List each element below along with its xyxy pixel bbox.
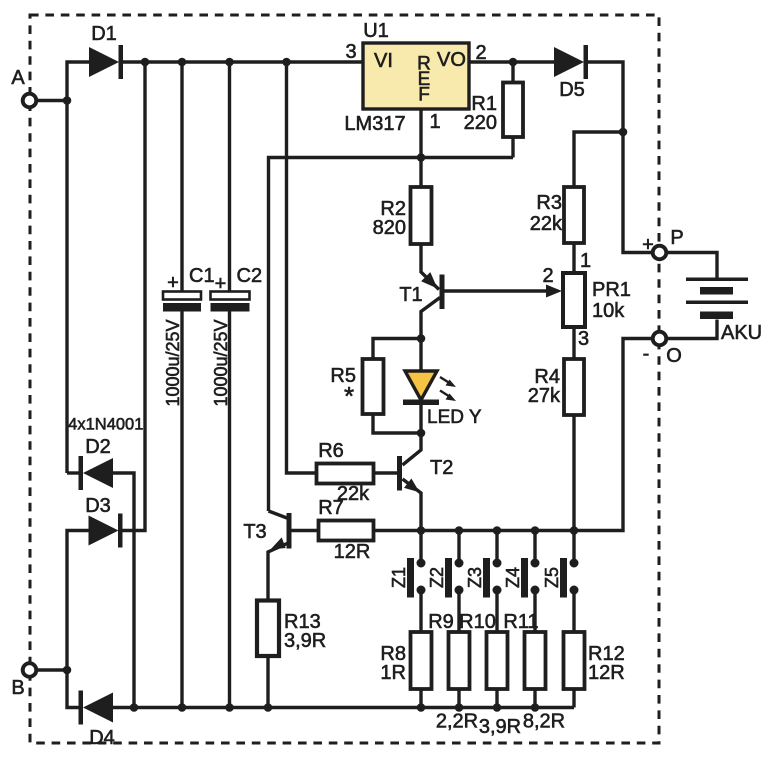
op-amp U1 LM317 regulator [344, 20, 486, 135]
svg-text:820: 820 [373, 217, 406, 239]
wire R4 to bus [572, 415, 575, 531]
terminal O [643, 332, 682, 367]
battery AKU [666, 253, 762, 345]
wire bottom bus [113, 706, 574, 709]
svg-text:1000u/25V: 1000u/25V [211, 319, 231, 406]
wire U1 pin2 to D5 [469, 60, 554, 63]
svg-text:D5: D5 [559, 79, 585, 101]
wire junction to R3 [574, 132, 623, 187]
svg-text:B: B [11, 677, 24, 699]
diode D1 [89, 23, 123, 79]
svg-text:LM317: LM317 [344, 113, 405, 135]
node top bus C2 [225, 58, 234, 67]
node A junction [63, 96, 72, 105]
LED Y [403, 339, 482, 434]
svg-text:3: 3 [345, 41, 356, 63]
wire A net: up to top bus and down to D2 [67, 62, 89, 473]
resistor R8 1R [380, 632, 431, 708]
node bottom bus C1 [178, 703, 187, 712]
svg-text:C1: C1 [189, 265, 215, 287]
svg-text:Z4: Z4 [503, 567, 523, 588]
svg-text:T1: T1 [399, 284, 422, 306]
svg-text:Z2: Z2 [427, 567, 447, 588]
svg-text:VI: VI [374, 50, 393, 72]
svg-text:C2: C2 [237, 265, 263, 287]
potentiometer PR1 10k [542, 265, 630, 327]
resistor R3 22k [530, 187, 584, 243]
resistor R12 12R [564, 632, 625, 708]
wire ADJ net [269, 158, 514, 512]
diode D4 [67, 670, 115, 749]
svg-text:1: 1 [580, 250, 591, 272]
svg-text:O: O [666, 345, 682, 367]
node bottom bus C2 [225, 703, 234, 712]
svg-text:D2: D2 [85, 436, 111, 458]
svg-text:U1: U1 [363, 20, 389, 42]
svg-text:D3: D3 [85, 495, 111, 517]
svg-text:1: 1 [430, 111, 441, 133]
wire U1 pin1 [419, 109, 422, 158]
svg-text:3,9R: 3,9R [284, 630, 326, 652]
svg-text:-: - [643, 343, 650, 365]
resistor R5 [330, 339, 421, 434]
diode D3 [67, 62, 145, 670]
terminal B [11, 663, 67, 699]
svg-text:27k: 27k [528, 385, 561, 407]
node bus Z4 [531, 526, 540, 535]
node bottom bus R8 [417, 703, 426, 712]
capacitor C2 1000u/25V [211, 62, 263, 708]
svg-text:R3: R3 [536, 192, 562, 214]
svg-text:12R: 12R [588, 662, 625, 684]
svg-text:2: 2 [542, 265, 553, 287]
svg-text:R7: R7 [318, 497, 344, 519]
transistor T1 PNP [399, 244, 548, 339]
resistor R13 3,9R [257, 601, 326, 708]
wire D1 cathode to U1 pin3 [123, 60, 363, 63]
svg-text:3: 3 [578, 328, 589, 350]
node bottom bus R13 [264, 703, 273, 712]
node bus Z1 [417, 526, 426, 535]
node pin1 ADJ junction [417, 153, 426, 162]
terminal A [11, 67, 66, 107]
svg-text:T2: T2 [430, 457, 453, 479]
jumper Z5 [542, 531, 579, 633]
svg-text:VO: VO [437, 49, 466, 71]
svg-text:4x1N4001: 4x1N4001 [68, 416, 143, 434]
svg-text:R10: R10 [459, 611, 496, 633]
node bus Z5/R4 [570, 526, 579, 535]
diode D5 [554, 45, 588, 101]
svg-text:2,2R: 2,2R [436, 711, 478, 733]
svg-text:*: * [344, 381, 354, 411]
svg-text:22k: 22k [530, 213, 563, 235]
wire top bus to R6 [287, 62, 317, 473]
node pin2 R1 junction [509, 58, 518, 67]
diode D2 [67, 436, 134, 708]
transistor T3 NPN [243, 511, 318, 600]
node bus Z2 [455, 526, 464, 535]
node top bus C1 [178, 58, 187, 67]
jumper Z1 [389, 531, 426, 633]
node bottom bus D2 [130, 703, 139, 712]
node top bus x145 [141, 58, 150, 67]
capacitor C1 1000u/25V [163, 62, 215, 708]
svg-text:1R: 1R [380, 662, 406, 684]
jumper Z4 [503, 531, 540, 633]
wire PR1 pin3 to R4 [572, 327, 575, 359]
node top bus R6 [282, 58, 291, 67]
svg-text:Z1: Z1 [389, 567, 409, 588]
svg-text:R11: R11 [503, 611, 538, 633]
terminal P [642, 227, 684, 259]
svg-text:P: P [670, 227, 683, 249]
transistor T2 NPN [397, 433, 453, 531]
svg-text:T3: T3 [243, 521, 266, 543]
resistor R7 12R [318, 497, 421, 563]
resistor R2 820 [373, 158, 432, 245]
resistor R9 2,2R [428, 611, 478, 733]
svg-text:R9: R9 [428, 611, 454, 633]
wire bus to terminal O [421, 339, 653, 531]
node bottom bus R9 [455, 703, 464, 712]
resistor R1 220 [464, 62, 523, 158]
resistor R6 22k [317, 440, 398, 505]
node bus Z3 [493, 526, 502, 535]
svg-text:12R: 12R [334, 541, 371, 563]
svg-text:AKU: AKU [721, 322, 762, 344]
svg-text:1000u/25V: 1000u/25V [163, 319, 183, 406]
wire D5 to terminal P [588, 62, 653, 253]
resistor R10 3,9R [459, 611, 521, 738]
svg-text:PR1: PR1 [592, 279, 631, 301]
resistor R11 8,2R [503, 611, 565, 733]
svg-text:Z5: Z5 [542, 567, 562, 588]
svg-text:D4: D4 [89, 727, 115, 749]
node D5/R3 junction [619, 128, 628, 137]
svg-text:3,9R: 3,9R [479, 716, 521, 738]
jumper Z3 [465, 531, 502, 633]
svg-text:8,2R: 8,2R [523, 711, 565, 733]
svg-text:10k: 10k [592, 300, 625, 322]
svg-text:LED Y: LED Y [427, 407, 482, 428]
svg-text:F: F [418, 85, 430, 106]
svg-text:D1: D1 [91, 23, 117, 45]
node LED bottom junction [417, 429, 426, 438]
resistor R4 27k [528, 359, 584, 415]
node LED top junction [417, 334, 426, 343]
svg-text:220: 220 [464, 112, 497, 134]
node bottom bus R11 [531, 703, 540, 712]
node bottom bus R10 [493, 703, 502, 712]
jumper Z2 [427, 531, 464, 633]
node B junction [63, 666, 72, 675]
wire R3 to PR1 pin1 [572, 243, 575, 273]
svg-text:R6: R6 [318, 440, 344, 462]
svg-text:A: A [11, 67, 25, 89]
svg-text:Z3: Z3 [465, 567, 485, 588]
